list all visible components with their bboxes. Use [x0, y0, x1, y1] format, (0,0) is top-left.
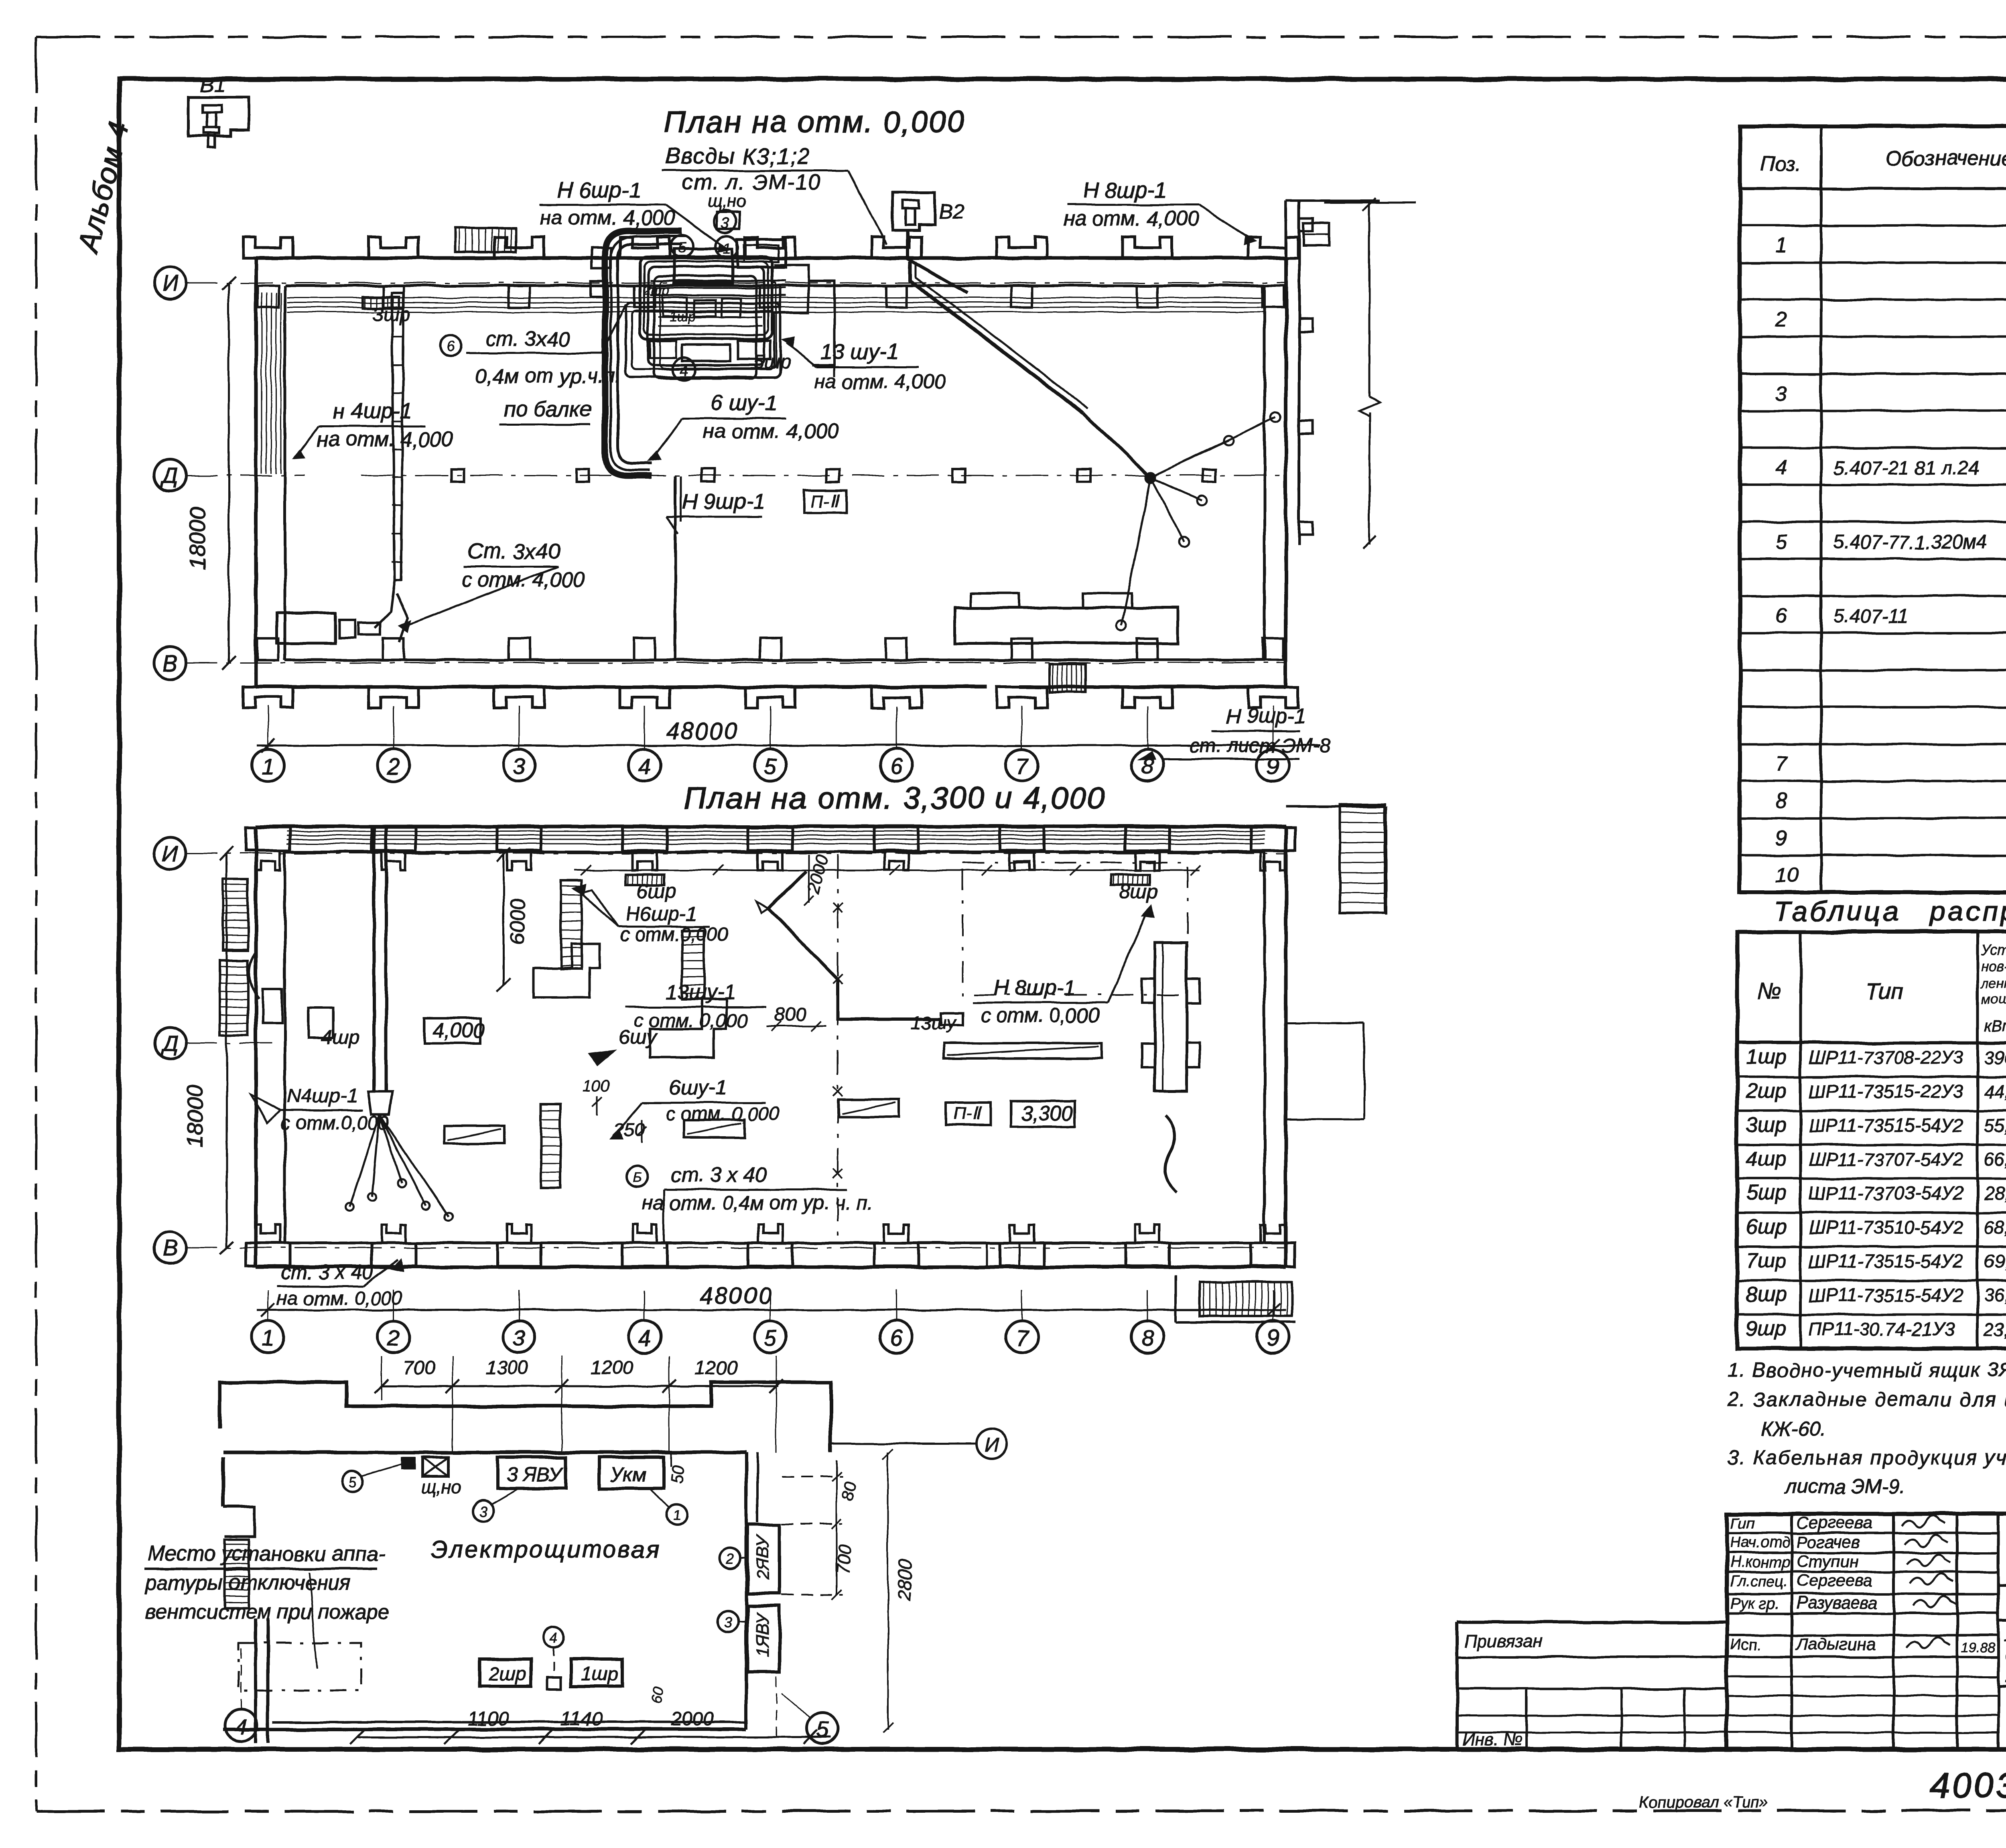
plan3 2YAVU 1YAVU boxes	[747, 1525, 780, 1594]
svg-text:4: 4	[638, 1325, 651, 1350]
plan1 wiring bundle along top wall	[287, 297, 1265, 299]
svg-text:Д: Д	[160, 1031, 178, 1056]
svg-text:ратуры отключения: ратуры отключения	[144, 1571, 351, 1594]
plan3 UKM box	[599, 1457, 664, 1489]
svg-text:1: 1	[1775, 234, 1787, 257]
svg-text:ст. 3х40: ст. 3х40	[485, 327, 570, 351]
svg-text:5: 5	[1775, 530, 1787, 553]
specification table	[1740, 126, 2006, 892]
plan1 machinery cluster conduits	[640, 257, 772, 339]
svg-text:36,64: 36,64	[1984, 1285, 2006, 1306]
svg-text:2000: 2000	[670, 1708, 714, 1730]
svg-text:1шр: 1шр	[1746, 1045, 1787, 1068]
svg-text:69,6: 69,6	[1984, 1251, 2006, 1271]
svg-text:И: И	[162, 270, 179, 296]
svg-text:3шр: 3шр	[1746, 1113, 1787, 1137]
svg-text:5: 5	[678, 240, 686, 256]
svg-text:П-Ⅱ: П-Ⅱ	[953, 1104, 983, 1123]
svg-text:нов-: нов-	[1981, 958, 2006, 974]
svg-text:2800: 2800	[893, 1559, 916, 1601]
svg-text:П-Ⅱ: П-Ⅱ	[811, 491, 841, 511]
svg-text:ШР11-73707-54У2: ШР11-73707-54У2	[1809, 1149, 1963, 1170]
svg-text:ст. 3 х 40: ст. 3 х 40	[671, 1164, 767, 1187]
plan1 vertical dim 18000	[228, 283, 230, 663]
plan2 right extension structures	[1286, 805, 1386, 808]
svg-text:2: 2	[726, 1551, 734, 1567]
svg-text:60: 60	[648, 1686, 668, 1705]
svg-text:ШР11-73515-54У2: ШР11-73515-54У2	[1809, 1251, 1963, 1271]
svg-text:6: 6	[1775, 604, 1787, 628]
plan2 vertical dim 18000	[226, 853, 228, 1248]
svg-text:100: 100	[583, 1077, 609, 1095]
svg-text:2шр: 2шр	[488, 1663, 526, 1685]
plan1 machinery cluster extra conduits	[611, 236, 687, 470]
svg-text:ленная: ленная	[1980, 976, 2006, 991]
svg-text:4: 4	[1775, 456, 1787, 479]
plan2 left outside equipment	[223, 879, 248, 951]
plan1 central vertical conduit	[674, 476, 677, 660]
svg-text:Сергеева: Сергеева	[1797, 1513, 1872, 1532]
svg-text:48000: 48000	[666, 718, 739, 744]
svg-text:на отм. 0,4м от ур. ч. п.: на отм. 0,4м от ур. ч. п.	[642, 1192, 873, 1214]
svg-text:0,4м от ур.ч.п.: 0,4м от ур.ч.п.	[475, 365, 621, 388]
plan3 bottom dims	[357, 1736, 830, 1738]
svg-text:1шр: 1шр	[581, 1663, 618, 1685]
svg-text:7: 7	[1775, 752, 1788, 776]
svg-text:4: 4	[638, 753, 651, 779]
svg-text:6 шу-1: 6 шу-1	[711, 391, 777, 415]
svg-text:7: 7	[1015, 753, 1029, 779]
svg-text:на отм. 4,000: на отм. 4,000	[814, 370, 945, 393]
plan2 dashed zone rectangle	[963, 863, 1188, 995]
svg-text:4: 4	[550, 1629, 558, 1646]
svg-text:В: В	[162, 650, 177, 676]
plan2 ladder strips interior	[561, 880, 582, 969]
svg-text:9шр: 9шр	[1746, 1317, 1787, 1340]
svg-text:Н6шр-1: Н6шр-1	[626, 903, 697, 925]
svg-text:390,01: 390,01	[1984, 1047, 2006, 1068]
svg-text:8: 8	[1775, 790, 1787, 813]
plan2 bottom st3x40 note	[627, 1166, 648, 1187]
svg-text:Обозначение: Обозначение	[1886, 147, 2006, 170]
svg-text:на отм. 4,000: на отм. 4,000	[703, 420, 839, 443]
svg-text:18000: 18000	[185, 507, 210, 570]
svg-text:1300: 1300	[485, 1357, 528, 1379]
svg-text:7: 7	[1015, 1325, 1029, 1350]
plan3 top dim chain 700 1300 1200 1200	[381, 1385, 778, 1387]
svg-text:Ввсды К3;1;2: Ввсды К3;1;2	[665, 143, 811, 169]
svg-text:с отм. 0,000: с отм. 0,000	[981, 1004, 1099, 1027]
plan2 long bench	[944, 1043, 1102, 1058]
svg-text:Ст. 3х40: Ст. 3х40	[467, 539, 560, 563]
plan2 boxed 4000	[424, 1018, 481, 1043]
plan1 equipment grid hatch	[455, 228, 516, 252]
svg-text:ШР11-73515-54У2: ШР11-73515-54У2	[1809, 1285, 1963, 1306]
svg-text:700: 700	[833, 1544, 855, 1575]
svg-text:1ЯВУ: 1ЯВУ	[753, 1612, 773, 1657]
svg-text:Н 6шр-1: Н 6шр-1	[558, 178, 641, 202]
svg-text:3,300: 3,300	[1021, 1102, 1073, 1125]
svg-text:КЖ-60.: КЖ-60.	[1761, 1417, 1826, 1440]
svg-text:Н 9шр-1: Н 9шр-1	[1226, 705, 1306, 728]
plan1 right small block	[1303, 223, 1329, 246]
svg-text:13шу: 13шу	[911, 1012, 957, 1033]
svg-text:В2: В2	[939, 200, 964, 223]
svg-text:1: 1	[262, 753, 274, 779]
svg-text:80: 80	[838, 1480, 860, 1502]
svg-text:листа ЭМ-9.: листа ЭМ-9.	[1784, 1475, 1905, 1498]
plan2 axis circles bottom	[252, 1321, 284, 1353]
plan2 right tall machine	[1155, 943, 1187, 1091]
title block	[1727, 1514, 2006, 1750]
svg-text:13 шу-1: 13 шу-1	[820, 340, 899, 364]
svg-text:68,97: 68,97	[1984, 1217, 2006, 1238]
plan2 pilasters point into the room	[246, 827, 290, 851]
svg-text:8: 8	[1141, 1325, 1153, 1350]
svg-text:Укм: Укм	[610, 1463, 646, 1486]
svg-text:5.407-77.1.320м4: 5.407-77.1.320м4	[1833, 532, 1987, 553]
svg-text:Б: Б	[633, 1170, 642, 1185]
svg-text:6: 6	[446, 338, 455, 355]
plan2 dim 6000 vertical	[503, 855, 505, 985]
svg-text:5: 5	[764, 1325, 777, 1350]
svg-text:9: 9	[1267, 753, 1279, 779]
svg-text:4: 4	[679, 362, 688, 379]
plan2 dashed route verticals	[837, 855, 839, 1242]
svg-text:кВт: кВт	[1984, 1017, 2006, 1035]
plan2 axis circles left	[154, 837, 186, 869]
svg-text:Ладыгина: Ладыгина	[1795, 1635, 1876, 1653]
svg-text:Гл.спец.: Гл.спец.	[1730, 1573, 1788, 1590]
plan1 left wall hatch lines	[261, 293, 262, 473]
svg-text:ст. л. ЭМ-10: ст. л. ЭМ-10	[682, 170, 821, 194]
svg-text:на отм. 0,000: на отм. 0,000	[277, 1288, 402, 1309]
plan2 duct legs with ends	[350, 1115, 380, 1207]
svg-text:по балке: по балке	[504, 397, 592, 421]
plan1 axis circles bottom	[252, 749, 284, 781]
svg-text:Разуваева: Разуваева	[1797, 1593, 1878, 1612]
plan3 2shr 1shr boxes	[479, 1659, 531, 1686]
svg-text:Исп.: Исп.	[1730, 1637, 1761, 1653]
svg-text:Поз.: Поз.	[1760, 152, 1801, 175]
svg-text:8шр: 8шр	[1746, 1283, 1787, 1306]
svg-text:5.407-11: 5.407-11	[1833, 606, 1908, 627]
svg-text:6: 6	[890, 753, 903, 779]
svg-text:ст. 3 х 40: ст. 3 х 40	[281, 1261, 373, 1283]
svg-text:6шр: 6шр	[1746, 1215, 1787, 1239]
svg-text:5шр: 5шр	[1746, 1181, 1787, 1204]
svg-text:1: 1	[723, 240, 731, 257]
svg-text:700: 700	[403, 1357, 435, 1379]
svg-text:1140: 1140	[561, 1708, 603, 1730]
svg-text:2: 2	[1775, 308, 1787, 331]
svg-text:19.88: 19.88	[1961, 1640, 1995, 1655]
svg-text:мощн.,: мощн.,	[1981, 992, 2006, 1007]
svg-text:И: И	[985, 1434, 999, 1456]
svg-text:5: 5	[764, 753, 777, 779]
svg-text:1200: 1200	[695, 1357, 738, 1379]
plan1 P-II box	[804, 490, 847, 513]
svg-text:3: 3	[724, 1614, 732, 1631]
svg-text:1200: 1200	[591, 1357, 633, 1379]
plan3 right dims 80 700 2800	[782, 1476, 843, 1477]
svg-text:Альбом 4: Альбом 4	[72, 118, 136, 257]
plan2 wiring bundle inside top wall	[287, 831, 1265, 832]
plan3 shield no box	[422, 1457, 449, 1476]
svg-text:Лесопильный цех с тарным: Лесопильный цех с тарным	[2004, 1624, 2006, 1645]
svg-text:6000: 6000	[506, 898, 530, 945]
svg-text:Место установки аппа-: Место установки аппа-	[148, 1542, 385, 1566]
svg-text:9: 9	[1775, 827, 1787, 850]
svg-text:Привязан: Привязан	[1464, 1631, 1543, 1651]
svg-text:Электрощитовая: Электрощитовая	[431, 1536, 661, 1563]
svg-text:ПР11-30.74-21У3: ПР11-30.74-21У3	[1809, 1319, 1955, 1340]
outer sheet border (dashed)	[36, 36, 2006, 38]
svg-text:2ЯВУ: 2ЯВУ	[753, 1535, 773, 1580]
svg-text:В1: В1	[200, 73, 225, 96]
plan1 cluster circles	[671, 235, 693, 258]
svg-text:1. Вводно-учетный ящик 3ЯВУ: 1. Вводно-учетный ящик 3ЯВУ учтен в прое…	[1727, 1359, 2006, 1381]
plan2 dim 2000 vertical small	[808, 855, 810, 903]
plan2 interior door gaps bottom wall	[986, 1243, 988, 1267]
svg-text:1шр: 1шр	[669, 309, 696, 324]
svg-text:ШР11-73708-22У3: ШР11-73708-22У3	[1809, 1047, 1963, 1068]
svg-text:Инв. №: Инв. №	[1462, 1730, 1523, 1749]
plan3 outer boundary top	[220, 1382, 831, 1452]
svg-text:3: 3	[479, 1503, 487, 1520]
plan1 bottom dimension 48000	[257, 745, 1320, 747]
plan1 right dimension line with break	[1368, 203, 1370, 397]
svg-text:И: И	[162, 841, 179, 866]
svg-text:23,37: 23,37	[1984, 1319, 2006, 1340]
plan1 building walls	[256, 256, 1286, 260]
plan2 long feeder polyline	[768, 871, 941, 1019]
svg-text:6: 6	[890, 1325, 903, 1350]
svg-text:5шр: 5шр	[753, 351, 791, 373]
plan3 3YAVU box	[497, 1457, 566, 1489]
svg-text:ШР11-73703-54У2: ШР11-73703-54У2	[1809, 1183, 1963, 1204]
svg-text:План на отм. 0,000: План на отм. 0,000	[664, 105, 966, 139]
plan2 lathe machines	[445, 1126, 505, 1143]
svg-text:5: 5	[348, 1474, 357, 1490]
svg-text:5.407-21 81 л.24: 5.407-21 81 л.24	[1833, 458, 1979, 479]
svg-text:Уста-: Уста-	[1981, 942, 2006, 958]
svg-text:Сергеева: Сергеева	[1797, 1571, 1872, 1590]
plan3 right yavu wall	[745, 1452, 748, 1729]
svg-text:вентсистем при пожаре: вентсистем при пожаре	[145, 1600, 390, 1624]
plan2 interior dim chain	[574, 869, 1200, 871]
svg-text:Н 8шр-1: Н 8шр-1	[1083, 178, 1166, 202]
svg-text:2шр: 2шр	[643, 283, 670, 298]
svg-text:3: 3	[513, 1325, 525, 1350]
svg-text:Тип: Тип	[1866, 979, 1903, 1004]
plan1 st3x40 leader	[440, 335, 461, 356]
plan1 pilasters	[243, 237, 293, 258]
svg-text:44,9: 44,9	[1984, 1081, 2006, 1102]
svg-text:План на отм. 3,300 и 4,000: План на отм. 3,300 и 4,000	[684, 781, 1105, 815]
svg-text:4,000: 4,000	[432, 1019, 485, 1042]
svg-text:7шр: 7шр	[1746, 1249, 1787, 1272]
svg-text:400327-05: 400327-05	[1930, 1765, 2006, 1805]
svg-text:распределительных: распределительных	[1929, 896, 2006, 927]
svg-text:Н 9шр-1: Н 9шр-1	[682, 489, 765, 514]
svg-text:2. Закладные детали для шкаф: 2. Закладные детали для шкафов ШР учтены…	[1727, 1388, 2006, 1411]
svg-text:ШР11-73510-54У2: ШР11-73510-54У2	[1809, 1217, 1963, 1238]
svg-text:3. Кабельная продукция учтен: 3. Кабельная продукция учтена в сводке к…	[1727, 1446, 2006, 1469]
svg-text:Н.контр.: Н.контр.	[1730, 1554, 1795, 1571]
svg-text:4шр: 4шр	[1746, 1147, 1787, 1170]
svg-text:N4шр-1: N4шр-1	[287, 1084, 358, 1107]
plan1 right extension wall	[1285, 201, 1287, 546]
svg-text:2: 2	[387, 1325, 400, 1350]
plan3 room walls	[223, 1451, 746, 1454]
plan2 boxed labels P-II 3300	[946, 1103, 991, 1125]
svg-text:18000: 18000	[182, 1085, 207, 1147]
svg-text:28,0: 28,0	[1984, 1183, 2006, 1204]
svg-text:66,53: 66,53	[1984, 1149, 2006, 1170]
svg-text:50: 50	[667, 1464, 687, 1485]
plan2 building walls	[256, 825, 1286, 829]
svg-text:на отм. 4,000: на отм. 4,000	[317, 428, 453, 451]
svg-text:ст. лист ЭМ-8: ст. лист ЭМ-8	[1190, 734, 1330, 757]
plan1 machinery cluster duct	[605, 231, 682, 476]
plan1 axis circles left	[154, 267, 186, 299]
svg-text:Д: Д	[160, 463, 178, 488]
svg-text:1100: 1100	[467, 1708, 509, 1730]
svg-text:на отм. 4,000: на отм. 4,000	[1063, 207, 1199, 230]
svg-text:Ступин: Ступин	[1797, 1552, 1859, 1571]
svg-text:В: В	[162, 1235, 177, 1261]
svg-text:ШР11-73515-54У2: ШР11-73515-54У2	[1809, 1115, 1963, 1136]
plan2 tall duct column	[372, 827, 376, 1091]
plan3 small item with 5	[402, 1458, 414, 1468]
svg-text:6шу-1: 6шу-1	[669, 1076, 727, 1099]
svg-text:на отм. 4,000: на отм. 4,000	[540, 206, 675, 229]
svg-text:9: 9	[1267, 1325, 1279, 1350]
svg-text:800: 800	[774, 1004, 806, 1026]
svg-text:Рогачев: Рогачев	[1797, 1532, 1860, 1551]
plan2 shaped machine near center	[534, 944, 600, 998]
svg-text:3: 3	[513, 753, 525, 779]
plan3 right outer lines	[831, 1443, 977, 1445]
svg-text:1: 1	[673, 1507, 681, 1524]
svg-text:Таблица: Таблица	[1773, 896, 1901, 927]
svg-text:щ,но: щ,но	[420, 1476, 462, 1497]
plan1 right lower platform	[955, 608, 1178, 643]
svg-text:250: 250	[613, 1119, 645, 1141]
svg-text:н 4шр-1: н 4шр-1	[333, 399, 412, 423]
svg-text:55,0: 55,0	[1984, 1115, 2006, 1136]
svg-text:Н 8шр-1: Н 8шр-1	[993, 976, 1076, 1000]
plan2 bottom dimension 48000	[257, 1309, 1286, 1311]
left attachment table	[1456, 1622, 1459, 1750]
plan3 dashed equipment zone	[239, 1643, 361, 1690]
plan1 lower-left machine	[277, 613, 335, 643]
svg-text:3: 3	[1775, 382, 1787, 405]
svg-text:щ,но: щ,но	[707, 191, 746, 211]
svg-text:Нач.отд.: Нач.отд.	[1730, 1534, 1794, 1551]
plan1 row of floor boxes	[451, 469, 464, 482]
title block right part lines	[1998, 1584, 2006, 1587]
svg-text:Гип: Гип	[1730, 1515, 1754, 1532]
svg-text:№: №	[1757, 979, 1782, 1004]
plan2 right curved duct	[1165, 1115, 1177, 1192]
plan3 corner circles	[225, 1709, 257, 1741]
svg-text:2000: 2000	[803, 853, 832, 896]
cabinet table	[1737, 932, 2006, 1348]
svg-text:6шу: 6шу	[619, 1026, 658, 1048]
svg-text:5: 5	[816, 1718, 829, 1742]
svg-text:ШР11-73515-22У3: ШР11-73515-22У3	[1809, 1081, 1963, 1102]
svg-text:Рук гр.: Рук гр.	[1730, 1595, 1779, 1612]
svg-text:4: 4	[235, 1715, 247, 1739]
svg-text:3: 3	[721, 215, 729, 232]
svg-text:1: 1	[262, 1325, 274, 1350]
plan1 tapered partition	[392, 293, 404, 580]
svg-text:2: 2	[387, 753, 400, 779]
svg-text:Копировал «Тип»: Копировал «Тип»	[1639, 1793, 1768, 1811]
plan1 diagonal feeder and fan	[910, 262, 1083, 413]
svg-text:10: 10	[1775, 863, 1799, 887]
svg-text:2шр: 2шр	[1746, 1079, 1787, 1103]
svg-text:3 ЯВУ: 3 ЯВУ	[506, 1463, 564, 1486]
plan2 right lower stairs	[1200, 1282, 1292, 1316]
svg-text:48000: 48000	[700, 1283, 773, 1309]
